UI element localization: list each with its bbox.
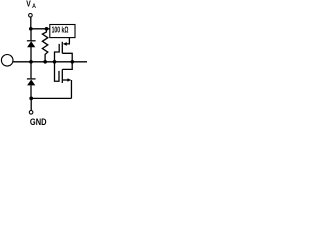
- svg-text:100 kΩ: 100 kΩ: [52, 25, 69, 35]
- svg-text:A: A: [32, 3, 36, 10]
- svg-text:V: V: [26, 0, 31, 9]
- svg-text:GND: GND: [30, 117, 47, 127]
